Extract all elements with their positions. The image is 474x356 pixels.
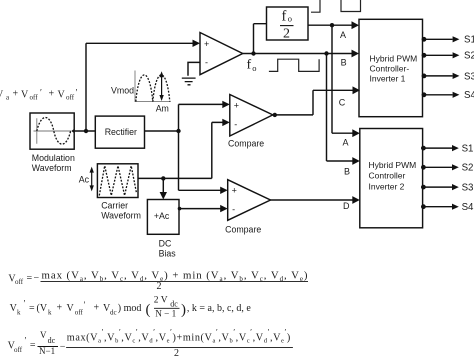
op-amp top comparator [200,33,243,75]
svg-text:dc: dc [48,336,56,345]
svg-text:+Ac: +Ac [154,211,170,221]
svg-text:N−1: N−1 [39,346,55,356]
arrow inverter2 B [352,157,360,165]
Ac measure arrow [91,170,93,188]
arrow compare1 - [222,119,230,126]
arrow inverter1 A [352,21,360,29]
svg-text:+: + [13,89,19,100]
arrow compare1 + [222,101,230,108]
svg-text:=: = [27,273,33,284]
wire rectifier output [145,130,179,132]
svg-text:′: ′ [24,299,26,309]
arrow into +Ac [160,192,167,200]
svg-text:+: + [94,303,100,314]
svg-text:dc: dc [170,299,178,308]
svg-text:Carrier: Carrier [101,201,128,211]
wire to compare1 + [179,103,224,105]
svg-text:-: - [232,205,235,215]
svg-text:′: ′ [84,300,86,310]
svg-text:off: off [14,346,23,354]
svg-text:off: off [66,94,75,102]
wire B down to inverter2 [327,54,355,162]
svg-text:Modulation: Modulation [32,153,75,163]
wire junction down into +Ac [162,178,164,193]
svg-text:2: 2 [174,348,179,356]
svg-text:Inverter 1: Inverter 1 [370,74,406,84]
svg-text:Ac: Ac [79,174,90,184]
arrow inverter1 C [353,86,361,94]
node junction mod output [84,129,88,133]
arrow inverter1 B [352,50,360,58]
svg-text:Hybrid PWM: Hybrid PWM [370,54,418,64]
svg-text:′: ′ [40,88,42,98]
formula 2: Vk' [10,295,252,318]
svg-text:(V: (V [37,303,48,314]
svg-text:′: ′ [25,335,27,345]
node fo junction [251,51,255,55]
svg-text:C: C [339,97,346,107]
svg-text:max (Va, Vb, Vc, Vd, Ve) + min: max (Va, Vb, Vc, Vd, Ve) + min (Va, Vb, … [42,270,308,283]
wire fo output [243,53,354,55]
svg-text:S4: S4 [464,90,474,101]
icon square wave fo [269,59,319,71]
wire output S3 [422,71,474,82]
svg-text:off: off [75,309,84,317]
wire A down to inverter2 [332,25,354,133]
Am measure arrow [161,75,163,98]
svg-text:Compare: Compare [225,225,261,235]
svg-text:f: f [247,58,252,73]
wire junction up to top comparator [86,43,194,131]
svg-text:-: - [205,58,208,68]
svg-text:f: f [282,9,287,25]
svg-text:V: V [40,330,47,340]
modulation sine curve [37,118,71,145]
svg-text:2 V: 2 V [154,295,168,305]
svg-text:(: ( [146,302,151,318]
svg-text:2: 2 [283,27,290,42]
svg-text:Waveform: Waveform [32,163,72,173]
svg-text:+: + [234,101,239,111]
svg-text:S3': S3' [462,183,474,194]
block Hybrid PWM Controller-Inverter 1 [359,19,423,116]
arrow inverter2 D [352,196,360,204]
wire fo/2 output to inverter1 A [308,24,353,26]
wire junction vertical to compare inputs [178,104,180,190]
svg-text:o: o [252,63,256,73]
wire carrier output [138,177,212,179]
wire output S4' [421,202,474,213]
svg-text:Compare: Compare [228,139,264,149]
svg-text:+: + [232,186,237,196]
block fo/2 [267,7,309,40]
svg-text:max(Va′,Vb′,Vc′,Vd′,Ve′)+min(V: max(Va′,Vb′,Vc′,Vd′,Ve′)+min(Va′,Vb′,Vc′… [67,328,290,345]
svg-text:a: a [6,94,10,102]
svg-text:A: A [340,30,346,40]
block Hybrid PWM Controller Inverter 2 [360,129,423,228]
modulation sine axis [34,118,72,144]
wire to compare2 + [179,189,222,191]
arrow into top comparator + [193,40,201,47]
svg-text:off: off [15,278,24,286]
wire fo junction up to fo/2 block [254,24,267,54]
svg-text:B: B [341,58,347,68]
node junction B [324,51,328,55]
block carrier waveform [97,164,138,198]
svg-text:S2: S2 [464,51,474,62]
svg-text:S2': S2' [462,163,474,174]
svg-text:Controller-: Controller- [370,64,410,74]
svg-text:) mod: ) mod [118,303,142,314]
wire top comparator minus to ground [188,62,200,75]
svg-text:S4': S4' [462,202,474,213]
node junction A [330,23,334,27]
wire compare1 output to C [273,90,354,115]
svg-text:=: = [30,340,36,351]
formula 3: Voff' [8,330,179,356]
block Rectifier [95,116,144,148]
svg-text:S1': S1' [462,144,474,155]
block Modulation Waveform [30,113,74,149]
formula 3 numerator [67,328,290,345]
svg-text:S3: S3 [464,71,474,82]
svg-text:2: 2 [157,281,162,292]
svg-text:′: ′ [76,88,78,98]
icon Vmod waveform [135,71,171,102]
svg-text:Bias: Bias [159,249,177,259]
svg-text:Waveform: Waveform [101,210,141,220]
formula 1: Voff [8,270,307,292]
svg-text:−: − [34,273,40,284]
svg-text:N − 1: N − 1 [155,308,176,318]
svg-text:DC: DC [159,239,172,249]
modulation axis arrow [71,129,74,134]
svg-text:V: V [0,89,4,100]
svg-text:−: − [60,341,66,352]
svg-text:off: off [30,94,39,102]
svg-text:k: k [48,309,52,317]
svg-text:+: + [204,39,209,49]
carrier triangle wave [99,166,136,196]
arrow compare2 - [220,205,228,212]
arrow inverter2 A [352,129,360,137]
svg-text:=: = [29,303,35,314]
svg-text:V: V [67,303,75,314]
svg-text:Hybrid PWM: Hybrid PWM [369,160,417,170]
svg-text:S1: S1 [464,35,474,46]
svg-text:A: A [343,137,349,147]
wire output S2' [421,163,474,174]
node junction carrier [161,176,165,180]
svg-text:V: V [21,89,29,100]
wire output S1' [421,144,474,155]
svg-text:D: D [343,201,350,211]
wire +Ac output to compare2 - [179,208,221,210]
svg-text:dc: dc [110,309,117,317]
wire output S2 [422,51,474,62]
svg-text:Vmod: Vmod [111,86,134,96]
wire output S3' [421,183,474,194]
icon square wave fo/2 (top, clipped) [311,0,361,12]
svg-text:o: o [288,14,292,24]
arrow compare2 + [220,187,228,194]
ground [182,78,196,85]
svg-text:B: B [344,167,350,177]
node junction rectifier output [176,129,180,133]
svg-text:Inverter 2: Inverter 2 [369,182,405,192]
svg-text:V: V [58,89,66,100]
op-amp compare2 [228,180,271,221]
wire compare2 output to D [271,199,355,201]
wire carrier up to compare1 - [212,122,224,178]
svg-text:+: + [49,89,55,100]
svg-text:+: + [57,303,63,314]
svg-text:-: - [234,120,237,130]
op-amp compare1 [230,95,273,137]
wire output S1 [422,35,474,46]
label Va + Voff' + Voff' [0,88,78,102]
svg-text:, k = a, b, c, d, e: , k = a, b, c, d, e [187,303,252,314]
svg-text:Controller: Controller [369,171,406,181]
wire output S4 [422,90,474,101]
wire mod output to rectifier [74,130,95,132]
svg-text:Am: Am [156,104,169,114]
svg-text:): ) [181,302,186,318]
block +Ac [147,200,179,235]
svg-text:k: k [17,309,21,317]
svg-text:Rectifier: Rectifier [105,127,137,137]
